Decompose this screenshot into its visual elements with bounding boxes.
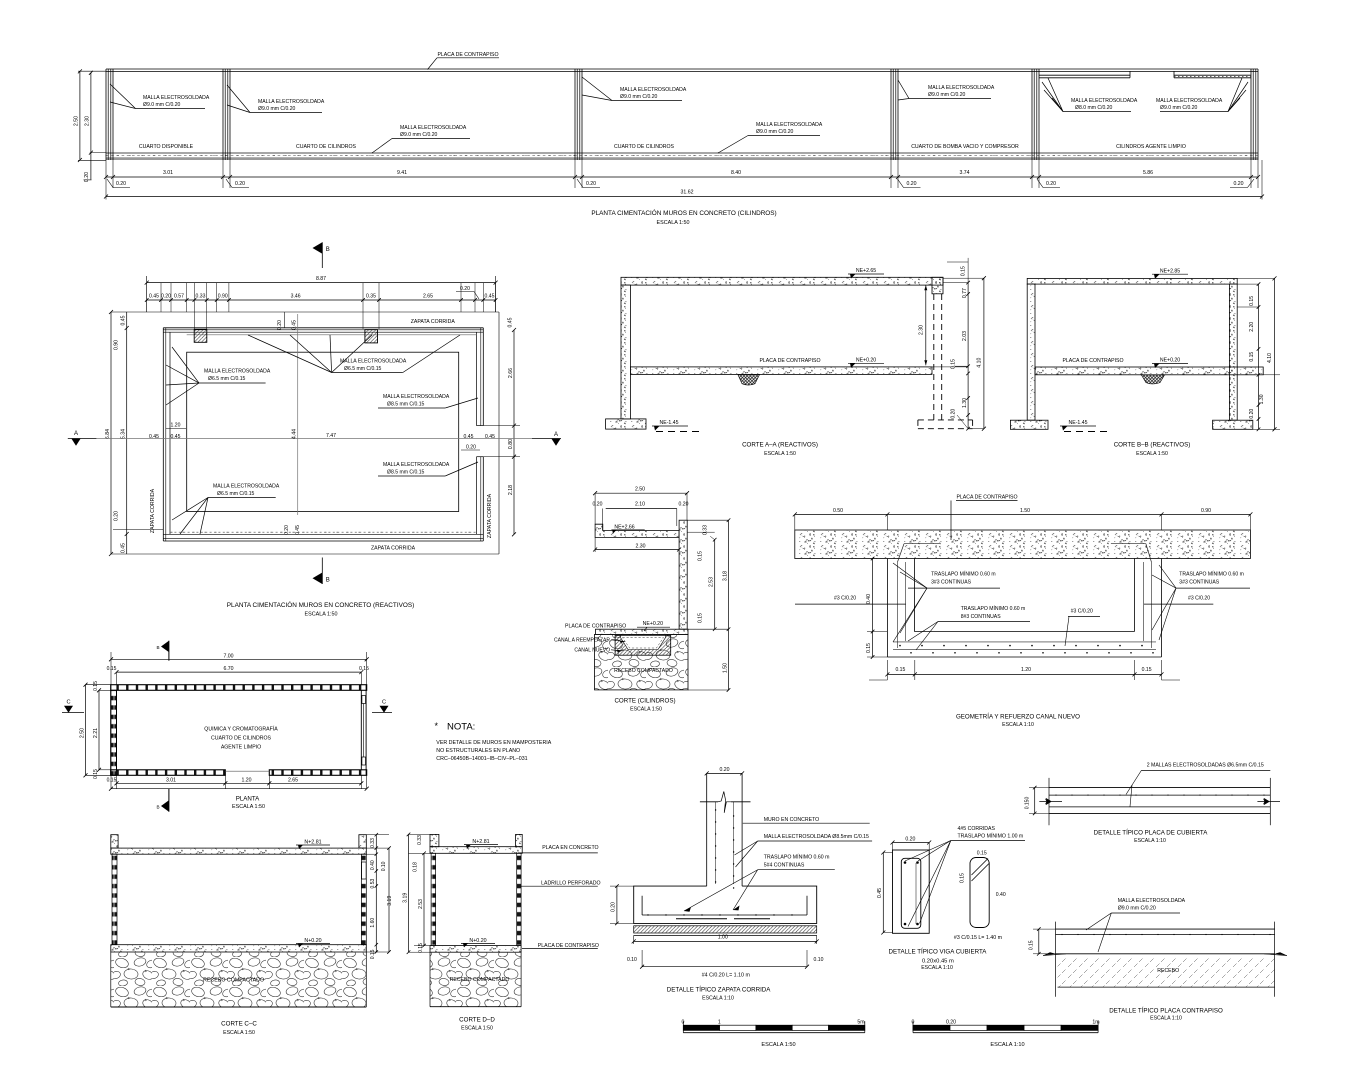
svg-text:ZAPATA CORRIDA: ZAPATA CORRIDA bbox=[371, 546, 416, 552]
svg-text:0.15: 0.15 bbox=[698, 613, 704, 623]
svg-text:5#4 CONTINUAS: 5#4 CONTINUAS bbox=[764, 863, 805, 869]
svg-text:Ø6.5 mm C/0.15: Ø6.5 mm C/0.15 bbox=[208, 376, 246, 382]
svg-text:PLACA EN CONCRETO: PLACA EN CONCRETO bbox=[542, 845, 598, 851]
stirrup detail bbox=[970, 858, 989, 928]
svg-text:0.80: 0.80 bbox=[508, 439, 514, 449]
hatched column 2 bbox=[365, 330, 378, 343]
svg-text:0.15: 0.15 bbox=[961, 266, 967, 276]
svg-text:0.40: 0.40 bbox=[996, 892, 1006, 898]
svg-text:0.15: 0.15 bbox=[1249, 296, 1255, 306]
svg-text:DETALLE TÍPICO ZAPATA CORRIDA: DETALLE TÍPICO ZAPATA CORRIDA bbox=[667, 987, 771, 994]
svg-text:0.20x0.45 m: 0.20x0.45 m bbox=[922, 959, 954, 965]
svg-text:#3 C/0.20: #3 C/0.20 bbox=[1188, 596, 1210, 602]
svg-text:NE-1.45: NE-1.45 bbox=[659, 420, 678, 426]
left dims 2.50/2.21/0.15 bbox=[85, 685, 87, 776]
svg-text:3#3 CONTINUAS: 3#3 CONTINUAS bbox=[931, 580, 972, 586]
svg-text:NE+0.20: NE+0.20 bbox=[643, 621, 663, 627]
svg-text:2.65: 2.65 bbox=[288, 777, 298, 783]
svg-text:2.30: 2.30 bbox=[635, 543, 645, 549]
left dim 0.40/0.15 bbox=[872, 559, 874, 658]
svg-text:0.20: 0.20 bbox=[611, 902, 617, 912]
hatched column 1 bbox=[194, 329, 207, 342]
svg-text:ESCALA 1:10: ESCALA 1:10 bbox=[1150, 1016, 1182, 1022]
svg-text:PLACA DE CONTRAPISO: PLACA DE CONTRAPISO bbox=[956, 494, 1017, 500]
svg-text:TRASLAPO MÍNIMO 0.60 m: TRASLAPO MÍNIMO 0.60 m bbox=[961, 605, 1026, 612]
svg-text:3.46: 3.46 bbox=[291, 294, 301, 300]
wall break symbol bbox=[700, 801, 718, 803]
svg-text:Ø9.0 mm C/0.20: Ø9.0 mm C/0.20 bbox=[756, 129, 794, 135]
contrapiso slab bbox=[596, 629, 689, 634]
svg-text:5.86: 5.86 bbox=[1143, 170, 1153, 176]
svg-text:CORTE A–A (REACTIVOS): CORTE A–A (REACTIVOS) bbox=[742, 442, 818, 449]
svg-text:1: 1 bbox=[718, 1019, 721, 1025]
svg-text:2 MALLAS ELECTROSOLDADAS Ø6.5m: 2 MALLAS ELECTROSOLDADAS Ø6.5mm C/0.15 bbox=[1147, 762, 1264, 768]
svg-text:Ø9.0 mm C/0.20: Ø9.0 mm C/0.20 bbox=[1160, 105, 1198, 111]
svg-text:MALLA ELECTROSOLDADA: MALLA ELECTROSOLDADA bbox=[400, 125, 467, 131]
left vertical dims 2.50 / 2.30 / 0.20 bbox=[79, 71, 81, 160]
svg-text:VER DETALLE DE MUROS EN MAMPOS: VER DETALLE DE MUROS EN MAMPOSTERIA bbox=[436, 740, 551, 746]
bottom dim 0.10 row bbox=[641, 950, 643, 967]
svg-text:Ø8.5 mm C/0.15: Ø8.5 mm C/0.15 bbox=[387, 402, 425, 408]
break marks bbox=[1039, 799, 1062, 805]
svg-text:0.15: 0.15 bbox=[93, 681, 99, 691]
svg-text:0.57: 0.57 bbox=[174, 294, 184, 300]
svg-text:ESCALA 1:50: ESCALA 1:50 bbox=[657, 220, 690, 226]
interior dimension cross lines 7.47 / 4.44 bbox=[97, 437, 532, 439]
right dims bbox=[714, 540, 716, 630]
svg-text:0.10: 0.10 bbox=[381, 861, 387, 871]
svg-text:2.50: 2.50 bbox=[80, 728, 86, 738]
svg-text:0: 0 bbox=[912, 1019, 915, 1025]
svg-text:0.20: 0.20 bbox=[114, 511, 120, 521]
svg-text:PLACA DE CONTRAPISO: PLACA DE CONTRAPISO bbox=[538, 943, 599, 949]
svg-text:2.50: 2.50 bbox=[74, 116, 80, 126]
svg-text:2.53: 2.53 bbox=[709, 577, 715, 587]
bottom dim row 0.15/1.20/0.15 bbox=[887, 673, 1161, 675]
corte A-A top slab (concrete) bbox=[621, 277, 943, 285]
svg-text:ESCALA 1:50: ESCALA 1:50 bbox=[461, 1026, 493, 1032]
svg-text:0.33: 0.33 bbox=[370, 838, 376, 848]
svg-text:0.50: 0.50 bbox=[833, 508, 843, 514]
svg-text:CUARTO DE CILINDROS: CUARTO DE CILINDROS bbox=[614, 144, 675, 150]
svg-text:CUARTO DE CILINDROS: CUARTO DE CILINDROS bbox=[211, 736, 272, 742]
svg-text:ZAPATA CORRIDA: ZAPATA CORRIDA bbox=[487, 493, 493, 538]
svg-text:0.20: 0.20 bbox=[906, 181, 916, 187]
right dims bbox=[375, 835, 377, 952]
svg-text:0.33: 0.33 bbox=[196, 294, 206, 300]
svg-text:2.30: 2.30 bbox=[85, 116, 91, 126]
dim 6.70 row bbox=[117, 671, 362, 673]
svg-text:2.66: 2.66 bbox=[508, 368, 514, 378]
svg-text:2.53: 2.53 bbox=[418, 899, 424, 909]
svg-text:0.15: 0.15 bbox=[959, 873, 965, 883]
plan walls (double vertical lines) bbox=[105, 69, 107, 160]
corte B-B right wall bbox=[1229, 284, 1237, 420]
svg-text:1.20: 1.20 bbox=[171, 423, 181, 429]
svg-text:ESCALA 1:50: ESCALA 1:50 bbox=[223, 1030, 255, 1036]
svg-text:0.15: 0.15 bbox=[977, 851, 987, 857]
svg-text:A: A bbox=[554, 432, 558, 438]
recebo bbox=[430, 952, 521, 1007]
svg-text:2.65: 2.65 bbox=[423, 294, 433, 300]
svg-text:0.45: 0.45 bbox=[291, 320, 297, 330]
svg-text:3.18: 3.18 bbox=[723, 571, 729, 581]
svg-text:0.90: 0.90 bbox=[114, 340, 120, 350]
svg-text:2.20: 2.20 bbox=[1249, 322, 1255, 332]
svg-text:0.20: 0.20 bbox=[235, 181, 245, 187]
dim 2.30 bbox=[595, 549, 679, 551]
svg-text:2.21: 2.21 bbox=[93, 728, 99, 738]
scale bar 1:10 bbox=[913, 1025, 950, 1030]
svg-text:NE-1.45: NE-1.45 bbox=[1068, 420, 1087, 426]
svg-text:PLACA DE CONTRAPISO: PLACA DE CONTRAPISO bbox=[437, 52, 498, 58]
svg-text:QUIMICA Y CROMATOGRAFÍA: QUIMICA Y CROMATOGRAFÍA bbox=[204, 726, 278, 733]
solid wall stub at right end of slab bbox=[932, 277, 943, 294]
svg-text:0.15: 0.15 bbox=[359, 666, 369, 672]
corte B-B top slab bbox=[1027, 278, 1237, 284]
beam section bbox=[893, 850, 930, 933]
section markers B-B bbox=[313, 242, 323, 254]
svg-text:RECEBO COMPACTADO: RECEBO COMPACTADO bbox=[203, 978, 264, 984]
svg-text:0.150: 0.150 bbox=[1025, 797, 1031, 810]
svg-text:0.15: 0.15 bbox=[698, 551, 704, 561]
svg-text:NE+2.66: NE+2.66 bbox=[614, 524, 634, 530]
svg-text:N+2.81: N+2.81 bbox=[304, 839, 321, 845]
svg-text:0.45: 0.45 bbox=[121, 315, 127, 325]
svg-text:PLANTA CIMENTACIÓN MUROS EN CO: PLANTA CIMENTACIÓN MUROS EN CONCRETO (RE… bbox=[227, 600, 414, 609]
corte A-A right dashed wall bbox=[933, 294, 935, 420]
small plan dim 7.00 bbox=[111, 658, 367, 660]
svg-text:B: B bbox=[326, 578, 330, 584]
svg-text:ESCALA 1:50: ESCALA 1:50 bbox=[305, 612, 338, 618]
svg-text:8.87: 8.87 bbox=[316, 276, 326, 282]
svg-text:4.10: 4.10 bbox=[1267, 353, 1273, 363]
dim 2.10 row bbox=[606, 508, 677, 510]
svg-text:MALLA ELECTROSOLDADA: MALLA ELECTROSOLDADA bbox=[1118, 898, 1186, 904]
svg-text:MALLA ELECTROSOLDADA: MALLA ELECTROSOLDADA bbox=[383, 394, 450, 400]
top slab bbox=[111, 848, 366, 854]
svg-text:0.15: 0.15 bbox=[1249, 352, 1255, 362]
svg-text:DETALLE TÍPICO PLACA CONTRAPIS: DETALLE TÍPICO PLACA CONTRAPISO bbox=[1109, 1008, 1223, 1015]
interior footprint rectangle bbox=[187, 352, 459, 511]
svg-text:0.10: 0.10 bbox=[627, 957, 637, 963]
svg-text:MALLA ELECTROSOLDADA: MALLA ELECTROSOLDADA bbox=[620, 87, 687, 93]
svg-text:7.47: 7.47 bbox=[326, 433, 336, 439]
svg-text:MALLA ELECTROSOLDADA: MALLA ELECTROSOLDADA bbox=[1071, 98, 1138, 104]
svg-text:0.45: 0.45 bbox=[295, 525, 301, 535]
svg-text:MALLA ELECTROSOLDADA: MALLA ELECTROSOLDADA bbox=[756, 122, 823, 128]
corte A-A left wall bbox=[621, 285, 630, 419]
svg-text:0.20: 0.20 bbox=[951, 409, 957, 419]
svg-text:DETALLE TÍPICO VIGA CUBIERTA: DETALLE TÍPICO VIGA CUBIERTA bbox=[889, 949, 988, 956]
svg-text:0.20: 0.20 bbox=[719, 767, 729, 773]
recebo hatched bbox=[1058, 957, 1275, 987]
top hook bars bbox=[904, 543, 939, 545]
svg-text:Ø9.0 mm C/0.20: Ø9.0 mm C/0.20 bbox=[928, 92, 966, 98]
svg-text:ZAPATA CORRIDA: ZAPATA CORRIDA bbox=[150, 488, 156, 533]
top slab bbox=[430, 847, 522, 854]
recebo rubble bbox=[111, 952, 366, 1007]
rebar lines in canal bbox=[897, 562, 899, 648]
svg-text:N+0.20: N+0.20 bbox=[469, 938, 486, 944]
svg-text:CUARTO DE BOMBA VACIO Y COMPRE: CUARTO DE BOMBA VACIO Y COMPRESOR bbox=[911, 144, 1019, 150]
svg-text:4.44: 4.44 bbox=[292, 429, 298, 439]
canal (hatched U) bbox=[615, 636, 671, 656]
contrapiso bbox=[430, 946, 521, 953]
corte B-B footings bbox=[1010, 420, 1048, 429]
footing outline bbox=[634, 886, 817, 923]
svg-text:0.45: 0.45 bbox=[149, 434, 159, 440]
break arrows at slab ends bbox=[1043, 952, 1056, 955]
svg-text:#3 C/0.20: #3 C/0.20 bbox=[1071, 609, 1093, 615]
canal U walls bbox=[886, 559, 888, 658]
svg-text:RECEBO COMPACTADO: RECEBO COMPACTADO bbox=[450, 977, 510, 983]
svg-text:MALLA ELECTROSOLDADA: MALLA ELECTROSOLDADA bbox=[258, 99, 325, 105]
svg-text:0.20: 0.20 bbox=[593, 502, 603, 508]
svg-text:Ø9.0 mm C/0.20: Ø9.0 mm C/0.20 bbox=[1118, 906, 1156, 912]
corte A-A contrapiso slab bbox=[630, 367, 932, 375]
svg-text:PLANTA CIMENTACIÓN MUROS EN CO: PLANTA CIMENTACIÓN MUROS EN CONCRETO (CI… bbox=[591, 208, 776, 217]
svg-text:3.19: 3.19 bbox=[387, 896, 393, 906]
svg-text:Ø8.0 mm C/0.20: Ø8.0 mm C/0.20 bbox=[1075, 105, 1113, 111]
svg-text:Ø6.5 mm C/0.15: Ø6.5 mm C/0.15 bbox=[217, 491, 255, 497]
svg-text:8.40: 8.40 bbox=[731, 170, 741, 176]
svg-text:CRC–06450B–14001–IB–CIV–PL–031: CRC–06450B–14001–IB–CIV–PL–031 bbox=[436, 756, 527, 762]
svg-text:0.20: 0.20 bbox=[84, 172, 90, 182]
svg-text:0.20: 0.20 bbox=[116, 181, 126, 187]
contrapiso slab bbox=[111, 945, 366, 952]
svg-text:4#5 CORRIDAS: 4#5 CORRIDAS bbox=[958, 826, 996, 832]
svg-text:*: * bbox=[435, 721, 439, 731]
left dims bbox=[408, 834, 410, 952]
top slab with left lip bbox=[595, 524, 679, 537]
svg-text:0.20: 0.20 bbox=[1249, 409, 1255, 419]
svg-text:1.50: 1.50 bbox=[723, 663, 729, 673]
svg-text:0.15: 0.15 bbox=[866, 643, 872, 653]
svg-text:NE+2.65: NE+2.65 bbox=[856, 268, 876, 274]
svg-text:0.40: 0.40 bbox=[370, 860, 376, 870]
svg-text:31.62: 31.62 bbox=[681, 190, 694, 196]
zapata wall bbox=[706, 773, 708, 886]
svg-text:NOTA:: NOTA: bbox=[447, 722, 475, 733]
svg-text:MALLA ELECTROSOLDADA: MALLA ELECTROSOLDADA bbox=[340, 359, 407, 365]
svg-text:Ø9.0 mm C/0.20: Ø9.0 mm C/0.20 bbox=[400, 132, 438, 138]
masonry walls bbox=[111, 685, 367, 691]
corte B-B left wall bbox=[1027, 284, 1035, 420]
interior zapata strip below top wall bbox=[187, 334, 477, 336]
svg-text:0.45: 0.45 bbox=[149, 294, 159, 300]
svg-text:0.35: 0.35 bbox=[366, 294, 376, 300]
svg-text:ESCALA 1:50: ESCALA 1:50 bbox=[761, 1042, 795, 1048]
svg-text:0.20: 0.20 bbox=[946, 1019, 956, 1025]
svg-text:0.20: 0.20 bbox=[1233, 181, 1243, 187]
dims right bbox=[1258, 284, 1260, 429]
svg-text:ESCALA 1:10: ESCALA 1:10 bbox=[921, 965, 953, 971]
svg-text:3.74: 3.74 bbox=[959, 170, 969, 176]
svg-text:ESCALA 1:50: ESCALA 1:50 bbox=[764, 451, 796, 457]
svg-text:7.00: 7.00 bbox=[223, 653, 233, 659]
overall dimension 31.62 bbox=[106, 196, 1262, 198]
svg-text:Ø9.0 mm C/0.20: Ø9.0 mm C/0.20 bbox=[143, 102, 181, 108]
svg-text:0.40: 0.40 bbox=[866, 594, 872, 604]
svg-text:PLANTA: PLANTA bbox=[236, 796, 260, 803]
slab lines bbox=[1049, 787, 1270, 789]
svg-text:0.15: 0.15 bbox=[370, 949, 376, 959]
svg-text:NE+0.20: NE+0.20 bbox=[856, 358, 876, 364]
svg-text:TRASLAPO MÍNIMO 0.60 m: TRASLAPO MÍNIMO 0.60 m bbox=[764, 854, 830, 861]
svg-text:CUARTO DE CILINDROS: CUARTO DE CILINDROS bbox=[296, 144, 357, 150]
svg-text:0.18: 0.18 bbox=[412, 862, 418, 872]
svg-text:RECEBO: RECEBO bbox=[1157, 968, 1179, 974]
svg-text:MALLA ELECTROSOLDADA: MALLA ELECTROSOLDADA bbox=[204, 369, 271, 375]
corte B-B hatched blob bbox=[1141, 375, 1164, 384]
corte D-D wall stubs bbox=[430, 834, 439, 846]
corte A-A hatched drain blob bbox=[738, 374, 760, 385]
svg-text:A: A bbox=[74, 431, 78, 437]
svg-text:0.45: 0.45 bbox=[877, 888, 883, 898]
svg-text:MALLA ELECTROSOLDADA: MALLA ELECTROSOLDADA bbox=[143, 95, 210, 101]
svg-text:0.15: 0.15 bbox=[1029, 940, 1035, 950]
svg-text:ESCALA 1:10: ESCALA 1:10 bbox=[702, 996, 734, 1002]
svg-text:2.50: 2.50 bbox=[635, 487, 645, 493]
svg-text:DETALLE TÍPICO PLACA DE CUBIER: DETALLE TÍPICO PLACA DE CUBIERTA bbox=[1094, 830, 1209, 837]
svg-text:1.30: 1.30 bbox=[1259, 394, 1265, 404]
svg-text:Ø9.0 mm C/0.20: Ø9.0 mm C/0.20 bbox=[258, 106, 296, 112]
svg-text:0.33: 0.33 bbox=[703, 525, 709, 535]
svg-text:GEOMETRÍA Y REFUERZO CANAL NUE: GEOMETRÍA Y REFUERZO CANAL NUEVO bbox=[956, 714, 1080, 721]
svg-text:Ø8.5 mm C/0.15: Ø8.5 mm C/0.15 bbox=[387, 470, 425, 476]
svg-text:0.20: 0.20 bbox=[277, 320, 283, 330]
svg-text:1.20: 1.20 bbox=[1021, 667, 1031, 673]
svg-text:MURO EN CONCRETO: MURO EN CONCRETO bbox=[764, 817, 820, 823]
svg-text:0.45: 0.45 bbox=[171, 434, 181, 440]
svg-text:MALLA ELECTROSOLDADA: MALLA ELECTROSOLDADA bbox=[1156, 98, 1223, 104]
svg-text:9.41: 9.41 bbox=[397, 170, 407, 176]
svg-text:2.03: 2.03 bbox=[962, 331, 968, 341]
top plan outer top edge (double line) bbox=[106, 68, 1258, 70]
svg-text:C: C bbox=[66, 700, 70, 706]
svg-text:0.20: 0.20 bbox=[1046, 181, 1056, 187]
svg-text:CILINDROS AGENTE LIMPIO: CILINDROS AGENTE LIMPIO bbox=[1116, 144, 1186, 150]
dimension row: room widths bbox=[106, 176, 1258, 178]
svg-text:5m: 5m bbox=[857, 1019, 864, 1025]
lean concrete hatched layer bbox=[634, 926, 817, 933]
svg-text:NE+0.20: NE+0.20 bbox=[1160, 358, 1180, 364]
svg-text:RECEBO COMPACTADO: RECEBO COMPACTADO bbox=[614, 668, 673, 674]
svg-text:1.20: 1.20 bbox=[241, 777, 251, 783]
masonry walls bbox=[431, 853, 436, 945]
frame horizontals bbox=[111, 311, 499, 313]
svg-text:CORTE C–C: CORTE C–C bbox=[221, 1021, 257, 1028]
svg-text:ESCALA 1:10: ESCALA 1:10 bbox=[990, 1042, 1024, 1048]
svg-text:LADRILLO PERFORADO: LADRILLO PERFORADO bbox=[541, 881, 600, 887]
svg-text:PLACA DE CONTRAPISO: PLACA DE CONTRAPISO bbox=[565, 624, 626, 630]
svg-text:0.45: 0.45 bbox=[464, 434, 474, 440]
svg-text:4.10: 4.10 bbox=[977, 358, 983, 368]
corte B-B contrapiso bbox=[1035, 367, 1263, 375]
svg-text:TRASLAPO MÍNIMO 1.00 m: TRASLAPO MÍNIMO 1.00 m bbox=[958, 833, 1024, 840]
svg-text:1.00: 1.00 bbox=[718, 935, 728, 941]
svg-text:0.45: 0.45 bbox=[485, 434, 495, 440]
svg-text:0.90: 0.90 bbox=[1201, 508, 1211, 514]
svg-text:TRASLAPO MÍNIMO 0.60 m: TRASLAPO MÍNIMO 0.60 m bbox=[931, 571, 996, 578]
svg-text:CORTE D–D: CORTE D–D bbox=[459, 1017, 495, 1024]
inner top wall segments of room 5 (CILINDROS AGENTE LIMPIO) bbox=[1039, 74, 1130, 76]
svg-text:#4 C/0.20 L= 1.10 m: #4 C/0.20 L= 1.10 m bbox=[702, 973, 751, 979]
svg-text:MALLA ELECTROSOLDADA: MALLA ELECTROSOLDADA bbox=[383, 462, 450, 468]
svg-text:0: 0 bbox=[682, 1019, 685, 1025]
svg-text:0.15: 0.15 bbox=[418, 943, 424, 953]
svg-text:#3 C/0.20: #3 C/0.20 bbox=[834, 596, 856, 602]
svg-text:6.84: 6.84 bbox=[105, 429, 111, 439]
right wall bbox=[679, 520, 687, 629]
svg-text:ESCALA 1:50: ESCALA 1:50 bbox=[1136, 451, 1168, 457]
svg-text:2.10: 2.10 bbox=[635, 502, 645, 508]
corte A-A left footing bbox=[606, 419, 646, 429]
svg-text:Ø6.5 mm C/0.15: Ø6.5 mm C/0.15 bbox=[344, 366, 382, 372]
top plan footing strip (zapata corrida) bbox=[106, 152, 1258, 154]
section markers B top/bottom bbox=[161, 641, 169, 652]
reactivos outer walls bbox=[163, 327, 483, 329]
svg-text:0.20: 0.20 bbox=[905, 836, 915, 842]
svg-text:0.20: 0.20 bbox=[586, 181, 596, 187]
contrapiso slab band bbox=[795, 530, 1251, 559]
svg-text:2.18: 2.18 bbox=[508, 485, 514, 495]
slab lines bbox=[1056, 928, 1275, 930]
svg-text:5.34: 5.34 bbox=[121, 429, 127, 439]
svg-text:0.20: 0.20 bbox=[466, 445, 476, 451]
svg-text:2.30: 2.30 bbox=[919, 325, 925, 335]
svg-text:1.60: 1.60 bbox=[370, 918, 376, 928]
bottom dims bbox=[117, 782, 362, 784]
reactivos plan dimension frame bbox=[147, 282, 496, 284]
corte C-C wall stubs above slab bbox=[111, 835, 118, 848]
svg-text:MALLA ELECTROSOLDADA Ø8.5mm C/: MALLA ELECTROSOLDADA Ø8.5mm C/0.15 bbox=[764, 834, 869, 840]
svg-text:N+0.20: N+0.20 bbox=[304, 938, 321, 944]
svg-text:CORTE (CILINDROS): CORTE (CILINDROS) bbox=[614, 698, 675, 705]
svg-text:AGENTE LIMPIO: AGENTE LIMPIO bbox=[221, 745, 261, 751]
scale bar 1:50 bbox=[683, 1025, 719, 1030]
right vertical dim lines bbox=[498, 312, 500, 554]
svg-text:0.15: 0.15 bbox=[895, 667, 905, 673]
svg-text:0.15: 0.15 bbox=[107, 777, 117, 783]
svg-text:0.20: 0.20 bbox=[679, 502, 689, 508]
svg-text:0.33: 0.33 bbox=[417, 835, 423, 845]
svg-text:1.50: 1.50 bbox=[1020, 508, 1030, 514]
svg-text:ESCALA 1:50: ESCALA 1:50 bbox=[232, 804, 265, 810]
svg-text:0.15: 0.15 bbox=[951, 359, 957, 369]
svg-text:3.19: 3.19 bbox=[403, 893, 409, 903]
svg-text:C: C bbox=[382, 700, 386, 706]
svg-text:B: B bbox=[156, 645, 159, 650]
svg-text:NO ESTRUCTURALES EN PLANO: NO ESTRUCTURALES EN PLANO bbox=[436, 748, 520, 754]
svg-text:0.20: 0.20 bbox=[284, 525, 290, 535]
top dim row 0.50/1.50/0.90 bbox=[795, 513, 1251, 515]
svg-text:CANAL A REEMPLAZAR: CANAL A REEMPLAZAR bbox=[554, 638, 610, 644]
svg-text:B: B bbox=[326, 247, 330, 253]
footing rebar with hooks bbox=[642, 914, 807, 916]
svg-text:ESCALA 1:50: ESCALA 1:50 bbox=[630, 707, 662, 713]
right wall with window bbox=[360, 690, 362, 770]
svg-text:Ø9.0 mm C/0.20: Ø9.0 mm C/0.20 bbox=[620, 94, 658, 100]
svg-text:0.45: 0.45 bbox=[508, 317, 514, 327]
left vertical dim 6.84 / 5.34 bbox=[110, 312, 112, 554]
svg-text:ZAPATA CORRIDA: ZAPATA CORRIDA bbox=[411, 319, 456, 325]
svg-text:CORTE B–B (REACTIVOS): CORTE B–B (REACTIVOS) bbox=[1114, 442, 1191, 449]
svg-text:3.01: 3.01 bbox=[163, 170, 173, 176]
svg-text:0.45: 0.45 bbox=[485, 294, 495, 300]
svg-text:6.70: 6.70 bbox=[223, 666, 233, 672]
